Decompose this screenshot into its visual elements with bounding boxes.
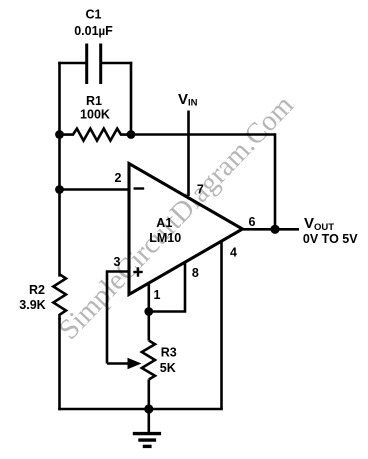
svg-text:0V TO 5V: 0V TO 5V [303, 232, 358, 246]
wire: output from apex to terminal [243, 228, 300, 231]
capacitor C1 plates [87, 44, 101, 85]
node: ground junction [144, 404, 153, 413]
capacitor C1 left lead [58, 62, 86, 65]
ground symbol [133, 434, 161, 447]
svg-text:3.9K: 3.9K [19, 298, 45, 312]
wire: C1 right branch down to R1 right node [130, 62, 133, 135]
resistor R3 zigzag [142, 341, 155, 380]
node: R1 right junction [127, 130, 136, 139]
svg-text:1: 1 [154, 288, 161, 302]
resistor R2 zigzag [53, 274, 66, 319]
wire: wiper arm horizontal [107, 362, 128, 365]
op-amp minus input symbol [134, 187, 145, 189]
wire: R3 bottom to ground rail [148, 380, 151, 410]
svg-text:5K: 5K [160, 361, 176, 375]
wire: left rail top segment [58, 62, 61, 277]
svg-text:R3: R3 [161, 346, 177, 360]
svg-text:4: 4 [230, 246, 237, 260]
resistor R1 zigzag [59, 129, 130, 141]
wire: left rail bottom segment [58, 318, 61, 410]
svg-text:2: 2 [115, 171, 122, 185]
node: output junction [270, 225, 279, 234]
wire: bottom ground rail [58, 408, 223, 411]
wire: pin 1 node down to R3 [148, 312, 151, 341]
svg-text:R2: R2 [29, 283, 45, 297]
wire: VIN down to pin 7 [187, 111, 190, 197]
op-amp U1 triangle [129, 164, 243, 295]
watermark SimpleCircuitDiagram.Com [53, 89, 300, 346]
svg-text:A1: A1 [156, 216, 172, 230]
wire: feedback vertical down to output node [274, 133, 277, 229]
node: pin 2 junction on left rail [55, 185, 64, 194]
svg-text:C1: C1 [86, 8, 102, 22]
svg-text:8: 8 [192, 266, 199, 280]
wiper arrowhead of R3 [128, 358, 142, 370]
svg-text:VOUT: VOUT [304, 215, 334, 233]
capacitor C1 right lead [101, 62, 133, 65]
svg-text:LM10: LM10 [149, 231, 181, 245]
wire: pin 3 from op-amp to wiper branch [107, 272, 129, 364]
svg-text:0.01µF: 0.01µF [74, 24, 113, 38]
wire: pin 8 down and over to pin 1 node [149, 262, 185, 312]
svg-text:7: 7 [197, 183, 204, 197]
wire: pin 1 down from op-amp [148, 283, 151, 312]
svg-text:3: 3 [114, 255, 121, 269]
node: pin1/pin8 junction [144, 307, 153, 316]
ground stub [148, 409, 151, 432]
op-amp plus input symbol [133, 267, 142, 276]
svg-text:VIN: VIN [178, 91, 198, 109]
wire: feedback from R1 node to output corner [131, 133, 275, 136]
svg-text:R1: R1 [86, 94, 102, 108]
svg-text:6: 6 [249, 215, 256, 229]
node: R1 left junction [55, 130, 64, 139]
wire: pin 2 from left rail to op-amp [60, 188, 130, 191]
wire: pin 4 down to ground rail [220, 242, 223, 409]
svg-text:100K: 100K [80, 108, 110, 122]
